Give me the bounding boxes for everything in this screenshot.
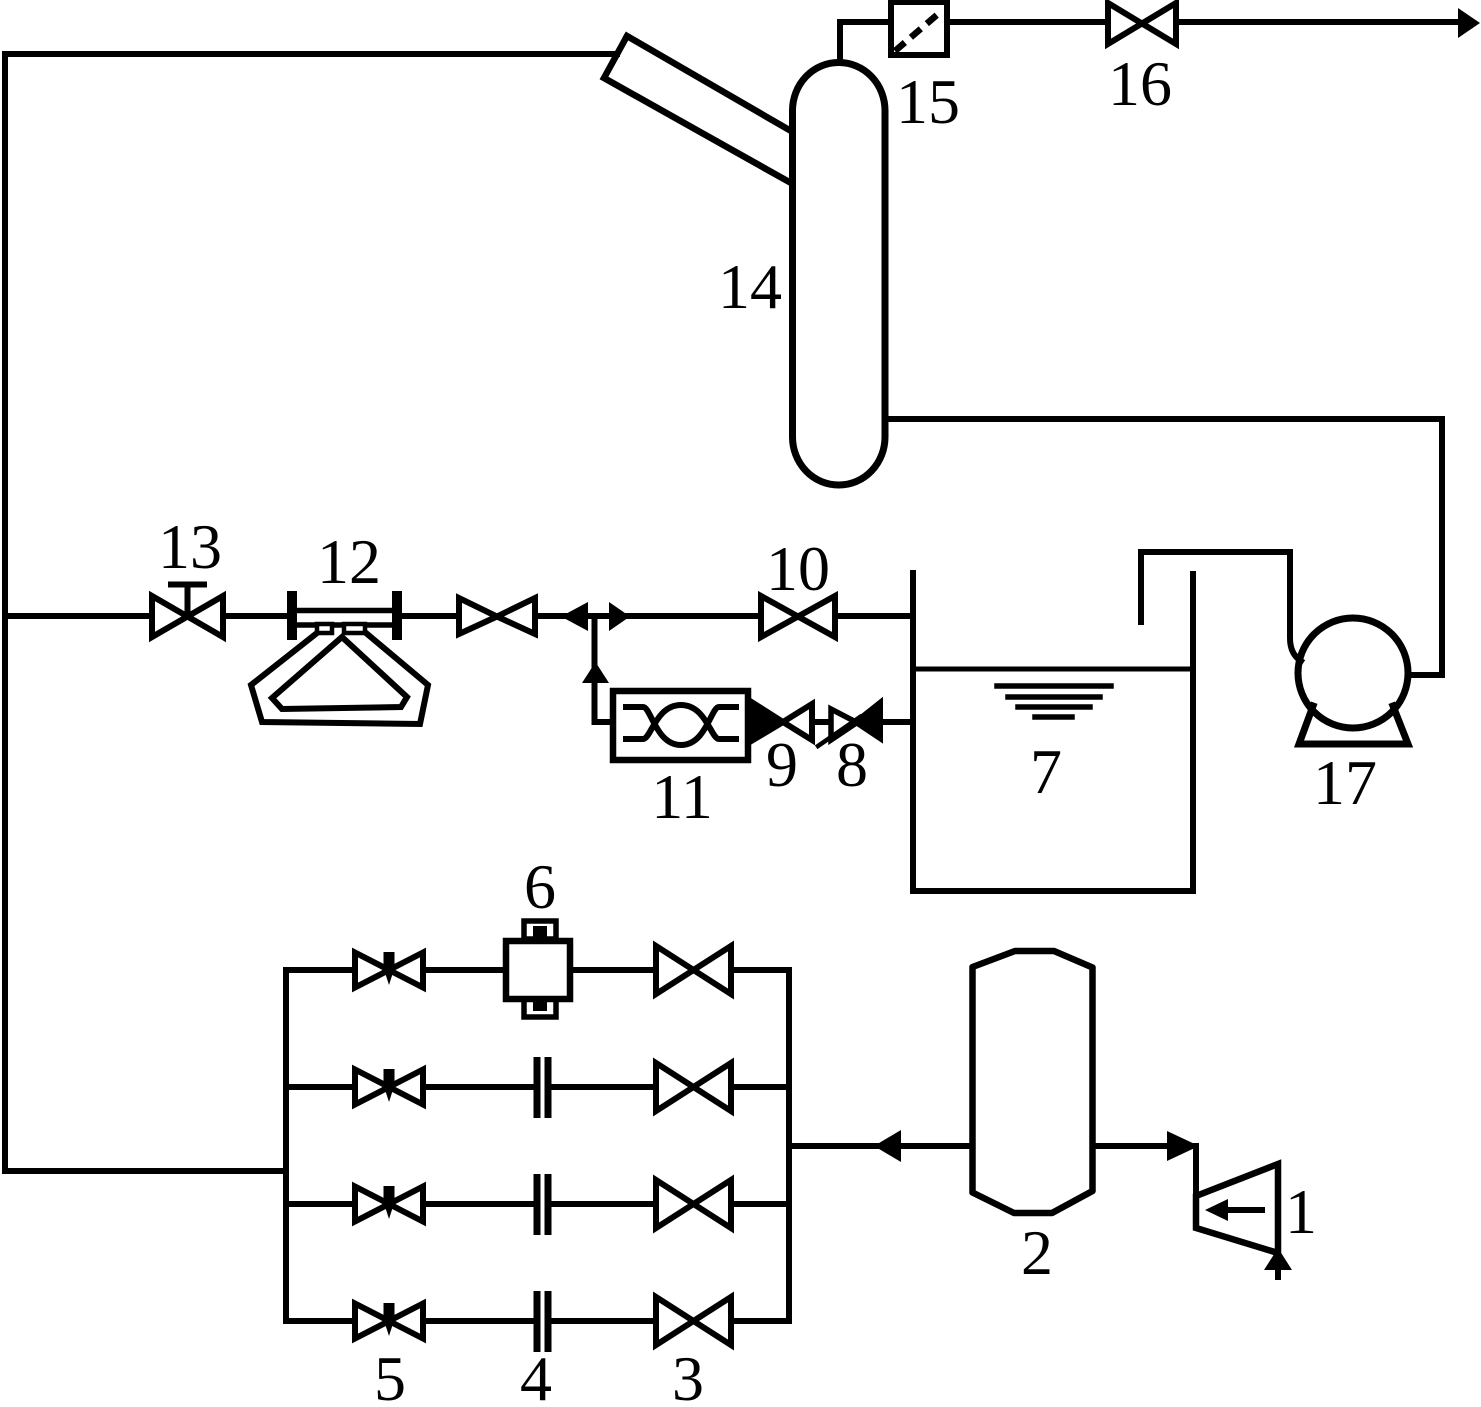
svg-text:12: 12 <box>317 526 381 597</box>
svg-text:5: 5 <box>374 1343 406 1402</box>
valve 8 body <box>831 709 857 740</box>
flow meter 12 bowl outer <box>251 633 428 724</box>
wire left vertical main loop <box>2 54 8 1171</box>
wire valve 10 to tank 7 <box>835 613 913 619</box>
valve 5 branch 4 <box>355 1303 423 1339</box>
valve 3 branch 2 <box>656 1063 731 1111</box>
valve 13 stem <box>171 585 204 617</box>
svg-text:15: 15 <box>896 66 960 137</box>
branch up flow arrow <box>582 662 609 683</box>
outlet arrow head <box>1458 8 1480 38</box>
flow meter 12 flanges <box>292 596 397 635</box>
compressor 1 bottom intake <box>1275 1253 1281 1277</box>
meter 11 internal crossing curves <box>626 705 736 745</box>
vessel 2 dryer body <box>973 951 1093 1213</box>
valve 3 branch 1 <box>656 946 731 994</box>
svg-text:17: 17 <box>1313 747 1377 818</box>
svg-text:6: 6 <box>524 851 556 922</box>
wire main middle line left section <box>5 613 152 619</box>
wire branch down to meter 11 <box>595 616 612 722</box>
wire bottom feed from left loop to manifold <box>5 1168 286 1174</box>
svg-text:8: 8 <box>836 729 868 800</box>
valve 13 body <box>152 596 223 637</box>
wire meter 12 to valve unnumbered <box>401 613 459 619</box>
tank 7 walls <box>913 573 1193 891</box>
tank 7 water surface marks <box>997 686 1111 717</box>
svg-text:1: 1 <box>1285 1176 1317 1247</box>
valve 5 branch 3 <box>355 1186 423 1222</box>
pump 17 base <box>1299 706 1408 744</box>
svg-text:10: 10 <box>766 533 830 604</box>
wire valve 8 to tank 7 <box>880 719 913 725</box>
valve 16 <box>1108 3 1176 44</box>
valve 10 body <box>761 596 835 637</box>
meter 11 box <box>613 691 748 760</box>
wire manifold outlet to vessel 2 <box>789 1143 970 1149</box>
orifice 4 on branch 4 <box>537 1291 548 1352</box>
flow meter 12 lower tabs <box>317 624 332 633</box>
collector inclined tube into separator 14 <box>604 36 791 183</box>
wire neck from vessel 14 top to gauge 15 <box>840 22 891 60</box>
junction left flow arrow <box>561 602 588 631</box>
svg-text:2: 2 <box>1021 1217 1053 1288</box>
wire vessel 2 to compressor 1 <box>1093 1146 1197 1196</box>
sampler 6 box <box>506 921 570 1017</box>
compressor 1 internal arrow <box>1228 1207 1262 1213</box>
vessel 14 separator body <box>793 63 886 486</box>
svg-text:3: 3 <box>672 1343 704 1402</box>
junction right flow arrow <box>609 602 630 631</box>
pump 17 circle <box>1298 618 1408 728</box>
tank 7 water level line <box>913 667 1193 672</box>
manifold right header <box>786 970 792 1321</box>
svg-text:11: 11 <box>651 761 713 832</box>
branch 2 wires <box>286 1084 789 1090</box>
branch 3 wires <box>286 1201 789 1207</box>
manifold left header <box>283 970 289 1321</box>
wire valve 9 to valve 8 <box>812 719 831 725</box>
orifice 4 on branch 2 <box>537 1057 548 1118</box>
gauge 15 box with dashed diagonal <box>891 2 947 55</box>
wire meter 11 to valve 9 <box>751 719 757 725</box>
svg-text:13: 13 <box>158 511 222 582</box>
svg-text:14: 14 <box>718 251 782 322</box>
valve between 12 and junction <box>459 598 535 634</box>
svg-text:7: 7 <box>1030 736 1062 807</box>
branch 1 wires <box>286 967 789 973</box>
wire gauge 15 to valve 16 <box>947 19 1108 25</box>
wire vessel 14 side outlet to pump riser <box>886 419 1442 675</box>
orifice 4 on branch 3 <box>537 1174 548 1235</box>
svg-text:16: 16 <box>1108 48 1172 119</box>
wire valve 13 to flow meter 12 <box>223 613 290 619</box>
wire junction segment to valve 10 <box>535 613 761 619</box>
flow meter 12 body lines <box>292 611 397 626</box>
flow arrow into manifold <box>874 1130 901 1162</box>
valve 3 branch 3 <box>656 1180 731 1228</box>
wire top horizontal to solar collector <box>5 51 617 57</box>
valve 9 body <box>783 704 812 740</box>
svg-text:4: 4 <box>520 1343 552 1402</box>
compressor 1 body <box>1196 1164 1278 1253</box>
branch 4 wires <box>286 1318 789 1324</box>
wire valve 16 to outlet arrow <box>1176 19 1460 25</box>
valve 5 branch 2 <box>355 1069 423 1105</box>
wire suction pipe over tank into pump <box>1141 552 1301 661</box>
valve 5 branch 1 <box>355 952 423 988</box>
svg-text:9: 9 <box>766 729 798 800</box>
valve 3 branch 4 <box>656 1297 731 1345</box>
flow meter 12 bowl inner <box>272 637 407 709</box>
flow arrow toward compressor drop <box>1167 1131 1199 1161</box>
